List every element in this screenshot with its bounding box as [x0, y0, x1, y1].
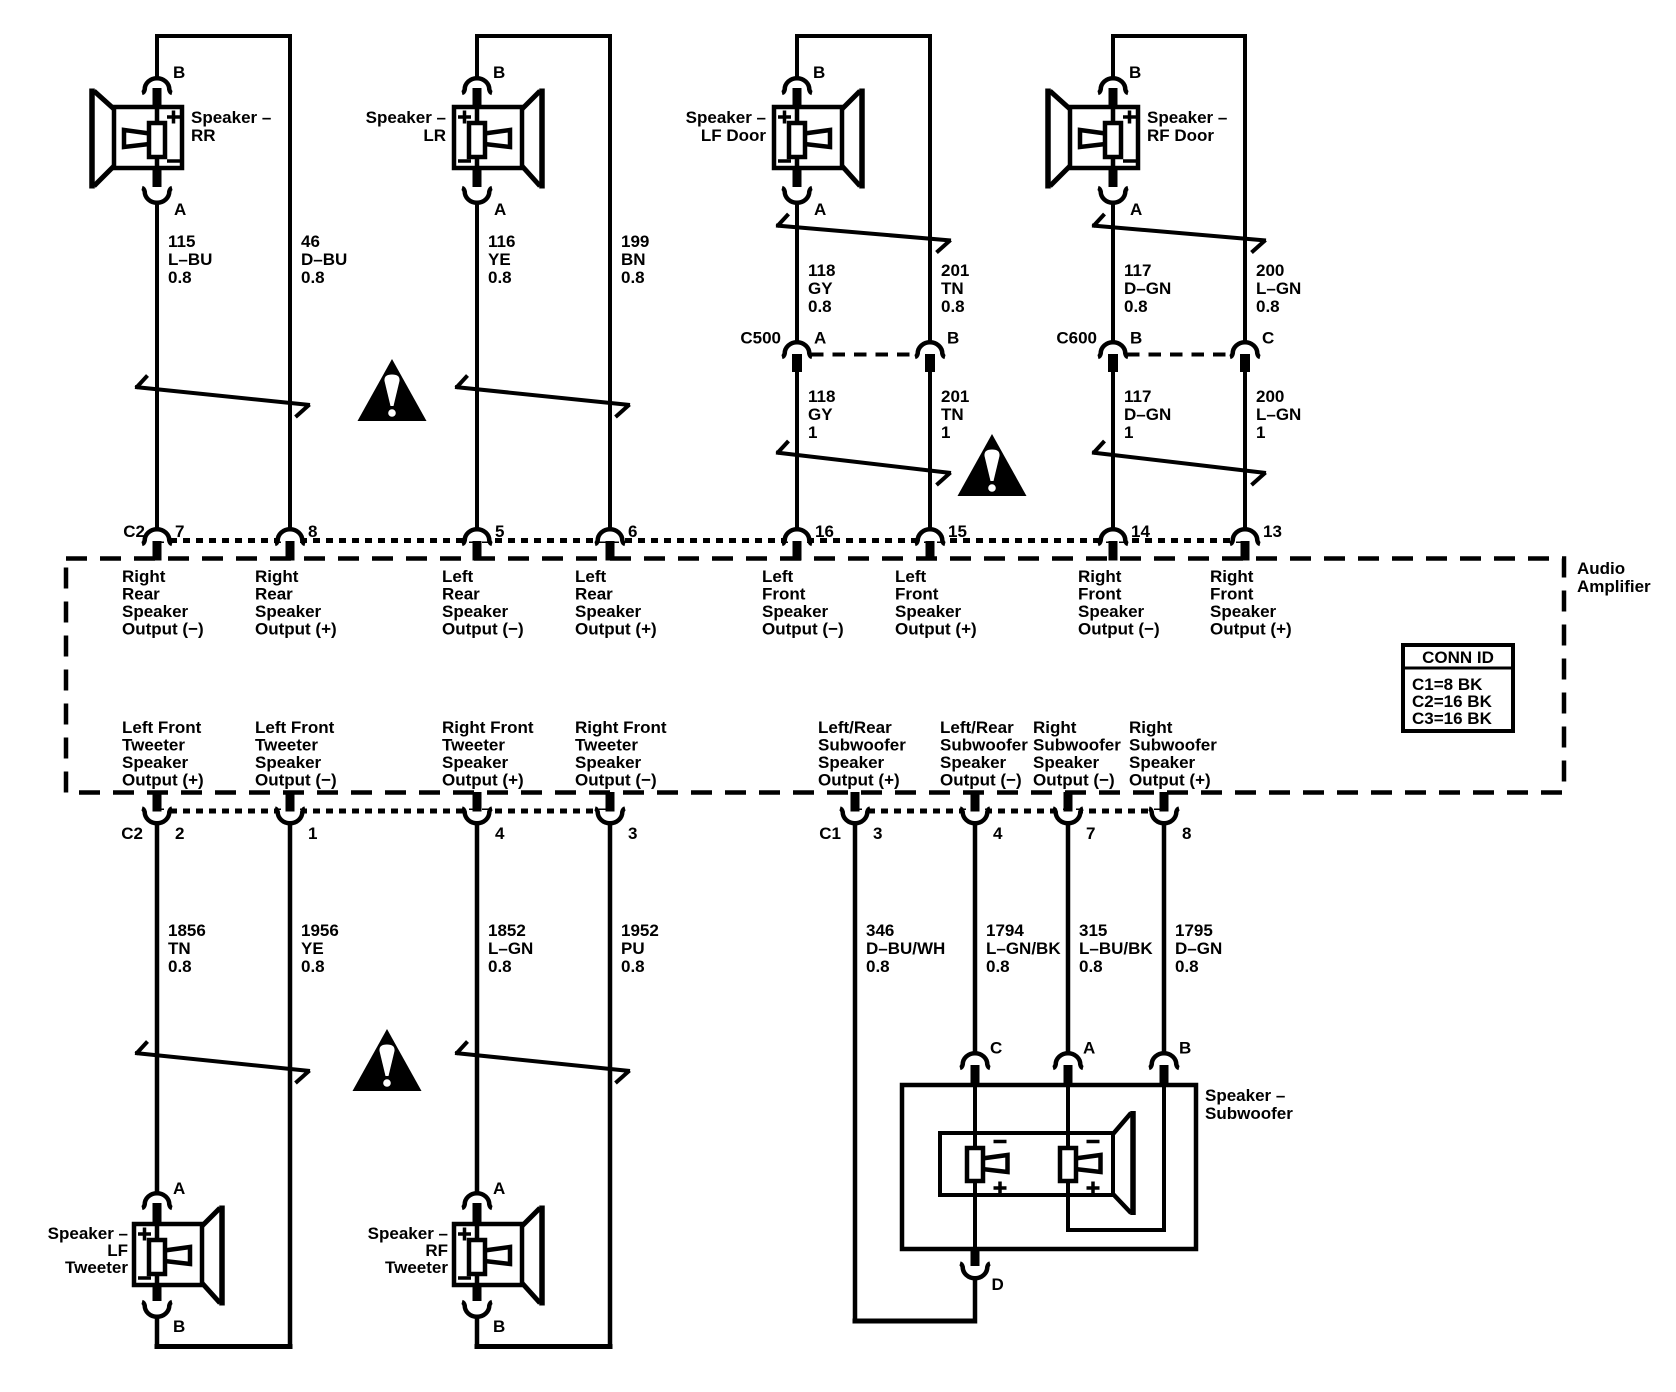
svg-text:117: 117 [1124, 387, 1151, 406]
svg-text:Output (−): Output (−) [762, 620, 844, 639]
svg-text:C2: C2 [123, 522, 145, 541]
svg-text:C: C [990, 1039, 1002, 1058]
speaker RF tweeter [454, 1224, 522, 1285]
amp pin -7 (bottom row) [1055, 810, 1082, 824]
svg-text:Left: Left [442, 567, 474, 586]
wire top jumper (speaker LR circuit) [475, 34, 612, 38]
svg-text:A: A [814, 200, 826, 219]
svg-text:1: 1 [308, 824, 317, 843]
svg-text:Speaker: Speaker [895, 602, 962, 621]
svg-text:RR: RR [191, 126, 216, 145]
svg-text:Speaker –: Speaker – [1205, 1086, 1285, 1105]
svg-text:Output (+): Output (+) [122, 771, 204, 790]
svg-text:L–GN/BK: L–GN/BK [986, 939, 1061, 958]
svg-text:Speaker: Speaker [255, 602, 322, 621]
svg-text:199: 199 [621, 232, 649, 251]
amp pin -1 (bottom row) [277, 810, 304, 824]
speaker LF Door [774, 107, 842, 168]
connector pin A (LF tweeter) [142, 1193, 172, 1208]
svg-text:0.8: 0.8 [488, 957, 512, 976]
svg-text:Right Front: Right Front [442, 718, 534, 737]
svg-text:Amplifier: Amplifier [1577, 577, 1651, 596]
svg-text:Output (−): Output (−) [1033, 771, 1115, 790]
svg-text:Output (−): Output (−) [442, 620, 524, 639]
wire RF tweeter bottom jumper [475, 1344, 613, 1349]
speaker LF tweeter [134, 1224, 202, 1285]
inline connector C600 pin C [1230, 342, 1260, 357]
svg-text:1952: 1952 [621, 921, 659, 940]
svg-text:L–BU/BK: L–BU/BK [1079, 939, 1153, 958]
connector pin A (speaker RR) [153, 166, 162, 187]
wire 118 GY upper (C500 left) [795, 202, 799, 343]
amp pin C2-2 (bottom row) [144, 810, 171, 824]
inline connector C500 pin A [782, 342, 812, 357]
svg-text:A: A [174, 200, 186, 219]
svg-text:Left/Rear: Left/Rear [940, 718, 1014, 737]
svg-text:1: 1 [941, 423, 950, 442]
svg-text:Output (+): Output (+) [255, 620, 337, 639]
svg-text:Left Front: Left Front [255, 718, 335, 737]
svg-text:Rear: Rear [122, 585, 160, 604]
svg-text:Tweeter: Tweeter [65, 1258, 128, 1277]
svg-text:0.8: 0.8 [168, 268, 192, 287]
svg-text:D: D [992, 1275, 1004, 1294]
amp pin -4 (bottom row) [962, 810, 989, 824]
speaker RR [114, 107, 182, 168]
svg-text:16: 16 [815, 522, 834, 541]
wire top jumper (speaker LF Door circuit) [795, 34, 932, 38]
svg-text:117: 117 [1124, 261, 1151, 280]
wire 200 L–GN lower (C600 right) [1243, 371, 1247, 530]
svg-text:1795: 1795 [1175, 921, 1213, 940]
wire 118 GY lower (C500 left) [795, 371, 799, 530]
svg-text:Speaker: Speaker [442, 753, 509, 772]
svg-text:0.8: 0.8 [621, 268, 645, 287]
svg-text:Front: Front [1210, 585, 1254, 604]
connector pin B (subwoofer) [1149, 1053, 1179, 1068]
svg-text:Left/Rear: Left/Rear [818, 718, 892, 737]
svg-text:Subwoofer: Subwoofer [940, 736, 1028, 755]
svg-text:A: A [1130, 200, 1142, 219]
wire 19xx (RF tweeter - from amp) [608, 822, 613, 1350]
svg-text:A: A [493, 1179, 505, 1198]
svg-text:B: B [493, 63, 505, 82]
amp pin -8 (bottom row) [1151, 810, 1178, 824]
connector pin B (LF tweeter) [153, 1283, 162, 1301]
amp pin C2-15 (top row) [917, 528, 944, 542]
svg-text:Speaker: Speaker [442, 602, 509, 621]
svg-text:A: A [814, 329, 826, 348]
svg-text:315: 315 [1079, 921, 1107, 940]
speaker LR [454, 107, 522, 168]
svg-text:Speaker –: Speaker – [366, 108, 446, 127]
wire 116 YE (LR speaker A to amp pin C2-5) [475, 202, 479, 530]
speaker RF Door [1070, 107, 1138, 168]
svg-text:Tweeter: Tweeter [122, 736, 185, 755]
amp pin C2-13 (top row) [1232, 528, 1259, 542]
svg-text:Rear: Rear [442, 585, 480, 604]
connector pin C (subwoofer) [960, 1053, 990, 1068]
svg-text:Left: Left [895, 567, 927, 586]
warning triangle (tweeter wires note) [353, 1029, 422, 1091]
wire 346 D-BU/WH (amp C1-3 to subwoofer D) [853, 822, 858, 1324]
svg-text:Tweeter: Tweeter [385, 1258, 448, 1277]
svg-text:3: 3 [628, 824, 637, 843]
svg-text:0.8: 0.8 [1079, 957, 1103, 976]
svg-text:Speaker –: Speaker – [686, 108, 766, 127]
svg-text:14: 14 [1131, 522, 1150, 541]
svg-text:116: 116 [488, 232, 515, 251]
svg-text:118: 118 [808, 387, 835, 406]
svg-text:Front: Front [895, 585, 939, 604]
svg-text:A: A [1083, 1039, 1095, 1058]
svg-text:Speaker: Speaker [1033, 753, 1100, 772]
connector pin A (subwoofer) [1053, 1053, 1083, 1068]
connector pin D (subwoofer) [971, 1250, 980, 1266]
wire 201 TN upper (C500 right) [928, 34, 932, 343]
svg-text:2: 2 [175, 824, 184, 843]
wire speaker LF Door pin B drop [795, 34, 799, 79]
svg-text:Output (+): Output (+) [1129, 771, 1211, 790]
svg-text:7: 7 [175, 522, 184, 541]
wire 199 BN (LR speaker B to amp pin C2-6) [608, 34, 612, 530]
svg-text:Rear: Rear [575, 585, 613, 604]
svg-text:Speaker: Speaker [940, 753, 1007, 772]
svg-text:D–BU: D–BU [301, 250, 347, 269]
wire LF tweeter B return [155, 1316, 160, 1349]
svg-text:PU: PU [621, 939, 645, 958]
svg-text:Audio: Audio [1577, 559, 1625, 578]
svg-text:LR: LR [423, 126, 446, 145]
svg-text:Speaker –: Speaker – [1147, 108, 1227, 127]
wire 200 L–GN upper (C600 right) [1243, 34, 1247, 343]
twisted-pair arrows lower (C500 circuit) [776, 453, 951, 474]
svg-text:B: B [1130, 329, 1142, 348]
svg-text:Output (−): Output (−) [122, 620, 204, 639]
svg-text:Right: Right [122, 567, 166, 586]
svg-text:Speaker: Speaker [762, 602, 829, 621]
svg-text:B: B [813, 63, 825, 82]
svg-text:200: 200 [1256, 261, 1284, 280]
amp pin -4 (bottom row) [464, 810, 491, 824]
svg-text:5: 5 [495, 522, 504, 541]
svg-text:1: 1 [1256, 423, 1265, 442]
svg-text:L–BU: L–BU [168, 250, 212, 269]
svg-text:115: 115 [168, 232, 195, 251]
amp pin -3 (bottom row) [597, 810, 624, 824]
svg-text:Output (−): Output (−) [940, 771, 1022, 790]
connector pin B (speaker LR) [462, 78, 492, 93]
svg-text:C1: C1 [819, 824, 841, 843]
svg-text:1852: 1852 [488, 921, 526, 940]
twisted-pair arrows (LR speaker wires) [455, 387, 630, 405]
svg-text:Subwoofer: Subwoofer [1129, 736, 1217, 755]
wire 201 TN lower (C500 right) [928, 371, 932, 530]
svg-text:Speaker: Speaker [122, 602, 189, 621]
inline connector C600 pin B [1098, 342, 1128, 357]
amp pin C2-7 (top row) [144, 528, 171, 542]
svg-text:A: A [173, 1179, 185, 1198]
svg-text:C600: C600 [1056, 329, 1097, 348]
wire 19xx (LF tweeter - from amp) [288, 822, 293, 1350]
wire speaker RR pin B drop [155, 34, 159, 79]
svg-text:0.8: 0.8 [1175, 957, 1199, 976]
svg-text:Front: Front [1078, 585, 1122, 604]
svg-text:Output (−): Output (−) [255, 771, 337, 790]
svg-text:YE: YE [488, 250, 511, 269]
svg-text:0.8: 0.8 [621, 957, 645, 976]
amp pin C2-6 (top row) [597, 528, 624, 542]
svg-text:LF Door: LF Door [701, 126, 767, 145]
svg-text:RF Door: RF Door [1147, 126, 1214, 145]
wire subwoofer A lead inside box [1066, 1085, 1070, 1150]
warning triangle (front speakers note) [958, 434, 1027, 496]
svg-text:15: 15 [948, 522, 967, 541]
svg-text:1856: 1856 [168, 921, 206, 940]
connector C500 mating dashes [811, 353, 916, 357]
svg-text:B: B [1179, 1039, 1191, 1058]
wire RF tweeter B return [475, 1316, 480, 1349]
svg-text:346: 346 [866, 921, 894, 940]
twisted-pair arrows (RR speaker wires) [135, 387, 310, 405]
svg-text:Speaker –: Speaker – [191, 108, 271, 127]
svg-text:Right: Right [1078, 567, 1122, 586]
wire subwoofer coil2 to B jumper [1066, 1180, 1070, 1232]
amp connector C1 bottom row bus [855, 809, 1164, 814]
svg-text:Right Front: Right Front [575, 718, 667, 737]
svg-text:Left: Left [575, 567, 607, 586]
svg-text:8: 8 [308, 522, 317, 541]
svg-text:Subwoofer: Subwoofer [1033, 736, 1121, 755]
svg-text:0.8: 0.8 [168, 957, 192, 976]
CONN ID table box [1403, 645, 1513, 731]
svg-text:TN: TN [941, 279, 964, 298]
audio amplifier dashed box [66, 559, 1564, 793]
svg-text:0.8: 0.8 [986, 957, 1010, 976]
twisted-pair arrows (RF tweeter wires) [455, 1053, 630, 1071]
twisted-pair arrows upper (C500 circuit) [776, 226, 951, 241]
svg-text:Speaker: Speaker [255, 753, 322, 772]
connector pin B (speaker LF Door) [782, 78, 812, 93]
svg-text:1: 1 [1124, 423, 1133, 442]
svg-text:Left: Left [762, 567, 794, 586]
svg-text:200: 200 [1256, 387, 1284, 406]
svg-text:Right: Right [1210, 567, 1254, 586]
svg-text:D–BU/WH: D–BU/WH [866, 939, 945, 958]
svg-text:0.8: 0.8 [1256, 297, 1280, 316]
wire 1794 L-GN/BK (amp C1-4 to subwoofer C) [973, 822, 978, 1055]
svg-text:Speaker: Speaker [818, 753, 885, 772]
svg-text:Output (+): Output (+) [818, 771, 900, 790]
svg-text:Output (+): Output (+) [895, 620, 977, 639]
wire 46 D-BU (RR speaker B to amp pin C2-8) [288, 34, 292, 530]
svg-text:YE: YE [301, 939, 324, 958]
svg-text:46: 46 [301, 232, 320, 251]
wire subwoofer D return [973, 1277, 978, 1324]
amp pin C2-5 (top row) [464, 528, 491, 542]
subwoofer voice coil 2 (A-B) [1075, 1155, 1101, 1172]
svg-text:D–GN: D–GN [1124, 405, 1171, 424]
svg-text:Right: Right [255, 567, 299, 586]
svg-text:B: B [173, 63, 185, 82]
svg-text:3: 3 [873, 824, 882, 843]
wire subwoofer B lead inside box [1162, 1085, 1166, 1232]
svg-text:Tweeter: Tweeter [255, 736, 318, 755]
svg-text:B: B [493, 1317, 505, 1336]
svg-text:C2: C2 [121, 824, 143, 843]
svg-text:0.8: 0.8 [301, 957, 325, 976]
svg-text:Left Front: Left Front [122, 718, 202, 737]
svg-text:4: 4 [495, 824, 505, 843]
svg-text:13: 13 [1263, 522, 1282, 541]
svg-text:Subwoofer: Subwoofer [1205, 1104, 1293, 1123]
connector pin B (RF tweeter) [473, 1283, 482, 1301]
svg-text:CONN ID: CONN ID [1422, 648, 1494, 667]
svg-text:Speaker: Speaker [1078, 602, 1145, 621]
twisted-pair arrows upper (C600 circuit) [1092, 226, 1266, 241]
svg-text:201: 201 [941, 387, 969, 406]
svg-text:TN: TN [941, 405, 964, 424]
subwoofer voice coil 1 (C-D) [982, 1155, 1008, 1172]
twisted-pair arrows lower (C600 circuit) [1092, 453, 1266, 474]
wire subwoofer coil1 to D [973, 1180, 977, 1250]
svg-text:Speaker: Speaker [1129, 753, 1196, 772]
svg-text:B: B [173, 1317, 185, 1336]
svg-text:Subwoofer: Subwoofer [818, 736, 906, 755]
svg-text:201: 201 [941, 261, 969, 280]
amp connector C2 bottom row bus [157, 809, 610, 814]
wire top jumper (speaker RR circuit) [155, 34, 292, 38]
connector pin B (speaker RR) [142, 78, 172, 93]
svg-text:Rear: Rear [255, 585, 293, 604]
svg-text:Output (+): Output (+) [1210, 620, 1292, 639]
svg-text:Front: Front [762, 585, 806, 604]
wire 1795 D-GN (amp C1-8 to subwoofer B) [1162, 822, 1167, 1055]
svg-text:C500: C500 [740, 329, 781, 348]
amp pin C2-16 (top row) [784, 528, 811, 542]
svg-text:8: 8 [1182, 824, 1191, 843]
svg-text:Speaker: Speaker [122, 753, 189, 772]
wire speaker RF Door pin B drop [1111, 34, 1115, 79]
wire speaker LR pin B drop [475, 34, 479, 79]
wire subwoofer C lead inside box [973, 1085, 977, 1150]
connector pin A (speaker RF Door) [1109, 166, 1118, 187]
svg-text:1: 1 [808, 423, 817, 442]
svg-text:TN: TN [168, 939, 191, 958]
amp connector C2 top row bus [157, 538, 1245, 543]
amp pin C2-14 (top row) [1100, 528, 1127, 542]
svg-text:4: 4 [993, 824, 1003, 843]
svg-text:0.8: 0.8 [1124, 297, 1148, 316]
svg-text:L–GN: L–GN [1256, 279, 1301, 298]
connector C600 mating dashes [1127, 353, 1231, 357]
subwoofer voice-coil housing [940, 1133, 1113, 1195]
warning triangle (rear speakers note) [358, 359, 427, 421]
inline connector C500 pin B [915, 342, 945, 357]
svg-text:6: 6 [628, 522, 637, 541]
svg-text:Right: Right [1033, 718, 1077, 737]
connector pin A (speaker LR) [473, 166, 482, 187]
svg-text:L–GN: L–GN [488, 939, 533, 958]
svg-text:Tweeter: Tweeter [575, 736, 638, 755]
svg-text:C3=16 BK: C3=16 BK [1412, 709, 1493, 728]
svg-text:0.8: 0.8 [301, 268, 325, 287]
wire 117 D–GN upper (C600 left) [1111, 202, 1115, 343]
wire 18xx (RF tweeter + from amp) [475, 822, 480, 1195]
wire 117 D–GN lower (C600 left) [1111, 371, 1115, 530]
svg-text:Speaker: Speaker [1210, 602, 1277, 621]
subwoofer outer box [902, 1085, 1196, 1249]
connector pin B (speaker RF Door) [1098, 78, 1128, 93]
svg-text:D–GN: D–GN [1175, 939, 1222, 958]
twisted-pair arrows (LF tweeter wires) [135, 1053, 310, 1071]
svg-text:BN: BN [621, 250, 646, 269]
svg-text:C: C [1262, 329, 1274, 348]
svg-text:Output (+): Output (+) [442, 771, 524, 790]
svg-text:B: B [1129, 63, 1141, 82]
wire 18xx (LF tweeter + from amp) [155, 822, 160, 1195]
connector pin A (speaker LF Door) [793, 166, 802, 187]
svg-text:Tweeter: Tweeter [442, 736, 505, 755]
wire 315 L-BU/BK (amp C1-7 to subwoofer A) [1066, 822, 1071, 1055]
svg-text:Output (+): Output (+) [575, 620, 657, 639]
svg-text:Speaker: Speaker [575, 602, 642, 621]
wire LF tweeter bottom jumper [155, 1344, 293, 1349]
wire top jumper (speaker RF Door circuit) [1111, 34, 1247, 38]
svg-text:Output (−): Output (−) [575, 771, 657, 790]
svg-text:0.8: 0.8 [808, 297, 832, 316]
svg-text:0.8: 0.8 [866, 957, 890, 976]
svg-text:0.8: 0.8 [941, 297, 965, 316]
svg-text:Output (−): Output (−) [1078, 620, 1160, 639]
svg-text:1794: 1794 [986, 921, 1024, 940]
connector pin A (RF tweeter) [462, 1193, 492, 1208]
svg-text:L–GN: L–GN [1256, 405, 1301, 424]
amp pin C2-8 (top row) [277, 528, 304, 542]
svg-text:0.8: 0.8 [488, 268, 512, 287]
svg-text:A: A [494, 200, 506, 219]
svg-text:118: 118 [808, 261, 835, 280]
svg-text:GY: GY [808, 279, 833, 298]
svg-text:Right: Right [1129, 718, 1173, 737]
amp pin C1-3 (bottom row) [842, 810, 869, 824]
wire 115 L-BU (RR speaker A to amp pin C2-7) [155, 202, 159, 530]
svg-text:D–GN: D–GN [1124, 279, 1171, 298]
svg-text:7: 7 [1086, 824, 1095, 843]
subwoofer horn [1113, 1113, 1131, 1134]
svg-text:1956: 1956 [301, 921, 339, 940]
svg-text:GY: GY [808, 405, 833, 424]
svg-text:Speaker: Speaker [575, 753, 642, 772]
svg-text:B: B [947, 329, 959, 348]
